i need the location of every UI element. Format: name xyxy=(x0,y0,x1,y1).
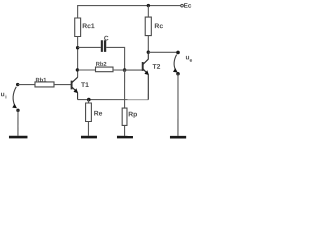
voltage arrow ue xyxy=(174,55,177,70)
transistor T2 xyxy=(143,52,149,99)
node junction Re xyxy=(87,98,91,102)
wire to capacitor xyxy=(78,46,101,48)
resistor Rc1 xyxy=(75,18,81,37)
svg-text:i: i xyxy=(5,94,7,100)
node ui bottom xyxy=(16,109,19,112)
source node ui top xyxy=(16,83,19,86)
wire rail to Rc xyxy=(147,6,149,17)
capacitor C xyxy=(101,40,106,52)
wire to Re xyxy=(87,100,89,103)
wire Rc1 down to T1 collector xyxy=(77,36,79,77)
svg-text:Rb2: Rb2 xyxy=(96,62,107,68)
wire ui to ground xyxy=(17,110,19,135)
transistor T1 xyxy=(72,77,78,99)
wire ui to Rb1 xyxy=(18,84,35,86)
wire top supply rail xyxy=(78,5,181,18)
terminal Ec xyxy=(181,4,184,7)
wire T1 collector to Rb2 xyxy=(78,69,96,71)
voltage arrow ui xyxy=(13,87,16,106)
wire ue to ground xyxy=(177,74,179,136)
svg-text:u: u xyxy=(1,91,5,98)
wire Rc to node below xyxy=(147,36,149,53)
ground right xyxy=(170,136,186,139)
resistor Rp xyxy=(122,108,127,125)
node ue bottom xyxy=(176,72,180,76)
ground left xyxy=(9,136,28,139)
svg-text:Ec: Ec xyxy=(184,3,192,10)
wire collector node to output xyxy=(148,51,178,53)
svg-text:Re: Re xyxy=(94,110,103,117)
ground Re xyxy=(81,136,97,139)
source arrow ue top node xyxy=(176,51,180,55)
wire Rp to ground xyxy=(124,125,126,135)
svg-text:e: e xyxy=(190,58,193,64)
node junction Rc1-capacitor xyxy=(76,46,79,49)
svg-text:T1: T1 xyxy=(81,82,89,89)
wire Rb2 to T2 base xyxy=(113,69,143,71)
svg-text:Rb1: Rb1 xyxy=(35,78,47,84)
wire emitter rail xyxy=(78,99,149,101)
resistor Rb2 xyxy=(95,67,113,72)
svg-text:Rp: Rp xyxy=(128,111,137,118)
wire Rb2 node down to Rp xyxy=(124,70,126,108)
node junction Rb2-T2 base xyxy=(123,68,127,72)
resistor Rb1 xyxy=(35,82,54,87)
svg-text:T2: T2 xyxy=(152,64,160,71)
svg-text:Rc1: Rc1 xyxy=(82,23,95,30)
resistor Re xyxy=(86,103,92,122)
node junction rail-Rc xyxy=(147,4,150,7)
svg-text:Rc: Rc xyxy=(154,23,163,30)
wire capacitor to vertical xyxy=(106,47,124,70)
resistor Rc xyxy=(145,17,151,36)
svg-text:C: C xyxy=(104,35,109,42)
wire Re to ground xyxy=(87,121,89,135)
node junction T2 collector xyxy=(147,51,150,54)
ground Rp xyxy=(117,136,133,139)
node junction T1 collector xyxy=(76,68,79,71)
wire Rb1 to T1 base xyxy=(54,84,72,86)
